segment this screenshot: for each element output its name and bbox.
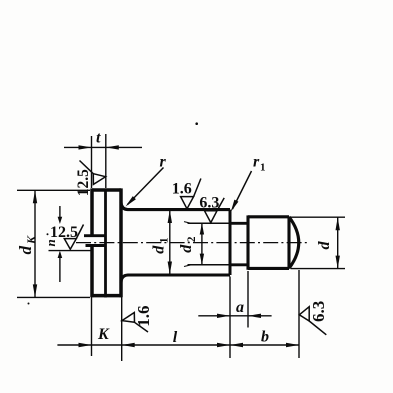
dimension d2 line xyxy=(201,224,203,264)
n lower extension line xyxy=(49,250,91,252)
n dimension upper arrow xyxy=(59,206,61,219)
svg-text:b: b xyxy=(261,328,269,345)
dimension t line xyxy=(64,146,142,148)
roughness 12.5 triangle at slot xyxy=(64,225,83,250)
svg-text:6.3: 6.3 xyxy=(199,195,219,212)
label d2 rotated xyxy=(178,236,198,253)
dimension t extension lines xyxy=(91,136,93,188)
svg-text:1.6: 1.6 xyxy=(134,306,153,327)
svg-text:d: d xyxy=(150,245,167,254)
svg-text:6.3: 6.3 xyxy=(309,301,328,322)
leader r xyxy=(128,168,164,205)
neck d2 outline xyxy=(230,222,248,225)
svg-text:1: 1 xyxy=(260,162,266,174)
label d1 rotated xyxy=(150,237,170,254)
leader r1 xyxy=(233,171,252,209)
svg-text:l: l xyxy=(173,329,178,346)
slot bottom edge xyxy=(86,244,106,247)
step face at end of shank xyxy=(229,210,232,275)
head outline xyxy=(92,188,121,297)
bottom extension lines xyxy=(57,270,299,361)
dimension a row xyxy=(198,315,271,317)
svg-text:r: r xyxy=(160,154,167,171)
svg-text:12.5: 12.5 xyxy=(75,169,92,196)
thread thin line bottom xyxy=(188,264,231,266)
svg-text:a: a xyxy=(236,299,244,316)
svg-text:K: K xyxy=(24,235,38,245)
svg-text:1.6: 1.6 xyxy=(172,180,192,197)
thread thin line top xyxy=(188,222,231,224)
svg-text:K: K xyxy=(97,326,110,343)
roughness 1.6 at bottom (rotated, apex left) xyxy=(122,313,148,333)
shank d1 outline with fillets r xyxy=(121,203,230,210)
dimension dK line xyxy=(34,190,36,297)
svg-text:t: t xyxy=(96,129,101,146)
svg-text:1: 1 xyxy=(158,237,170,243)
label dK rotated xyxy=(16,235,38,255)
svg-text:r: r xyxy=(253,154,260,171)
svg-text:d: d xyxy=(178,244,195,253)
svg-text:n: n xyxy=(43,239,58,246)
slot depth line xyxy=(104,190,107,298)
roughness 6.3 at bottom right (rotated, apex left) xyxy=(299,307,326,335)
dK arrows xyxy=(33,190,37,203)
svg-text:2: 2 xyxy=(186,236,198,242)
n lower arrow xyxy=(58,251,63,258)
svg-text:d: d xyxy=(316,241,333,250)
dimension d1 line xyxy=(169,211,171,274)
roughness 12.5 on slot bottom (rotated, apex right) xyxy=(80,161,106,185)
svg-text:d: d xyxy=(16,246,35,255)
dimension dK extension lines xyxy=(17,190,90,297)
specks xyxy=(195,122,198,125)
arrows K l b xyxy=(79,343,92,347)
dimension t arrows xyxy=(79,145,92,149)
slot top edge xyxy=(84,234,106,237)
bottom dimension row K l b xyxy=(57,344,299,346)
centerline (axis) xyxy=(76,242,310,244)
end cap (thread d) outline xyxy=(248,215,289,269)
dimension d extension lines xyxy=(290,217,345,268)
dome arc xyxy=(289,217,299,269)
